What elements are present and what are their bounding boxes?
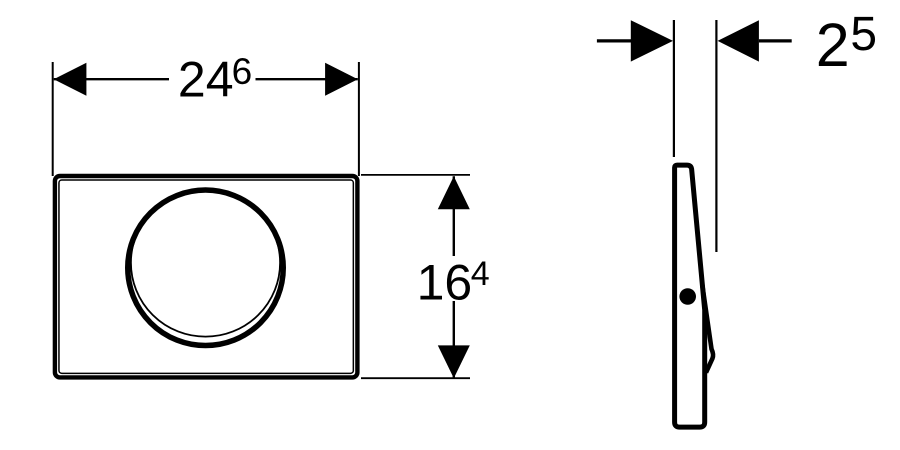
dimension 25: left extension line <box>673 20 675 157</box>
flush plate front view: outer border <box>55 176 358 377</box>
svg-text:24: 24 <box>178 52 234 108</box>
dimension 246: right arrowhead <box>325 63 358 96</box>
dimension 164: dimension line lower segment <box>453 301 455 378</box>
dimension 246: left extension line <box>52 62 54 176</box>
dimension 164: bottom arrowhead <box>438 345 470 378</box>
dimension 25: right extension line <box>715 20 717 252</box>
dimension 25: left line segment <box>597 39 631 42</box>
dimension 246: dimension line right segment <box>256 78 358 80</box>
side view: rocker flap hook at lower rear <box>702 285 713 373</box>
push button: thin inner circle (offset up) <box>131 189 280 337</box>
dimension 25: right arrowhead (points left) <box>718 20 759 61</box>
side view: screw dot <box>679 288 696 305</box>
side view: plate profile outline (front face, top edge, rear slant, right edge, bottom) <box>675 165 705 427</box>
push button: thick outer ring <box>128 190 284 346</box>
dimension 246: left arrowhead <box>54 63 87 96</box>
dimension 246: right extension line <box>358 62 360 176</box>
svg-text:5: 5 <box>850 8 877 61</box>
dimension 164: top extension line <box>361 174 470 176</box>
svg-text:4: 4 <box>471 255 490 293</box>
dimension 164: top arrowhead <box>438 176 470 209</box>
dimension 25: right line segment <box>759 39 792 42</box>
svg-text:16: 16 <box>417 254 473 310</box>
dimension 164: bottom extension line <box>361 377 470 379</box>
svg-text:2: 2 <box>816 11 850 79</box>
dimension 164: dimension line upper segment <box>453 176 455 256</box>
svg-text:6: 6 <box>232 51 253 92</box>
dimension 246: dimension line left segment <box>54 78 169 80</box>
flush plate front view: inner border line <box>59 180 353 373</box>
dimension 25: left arrowhead (points right) <box>631 20 673 61</box>
